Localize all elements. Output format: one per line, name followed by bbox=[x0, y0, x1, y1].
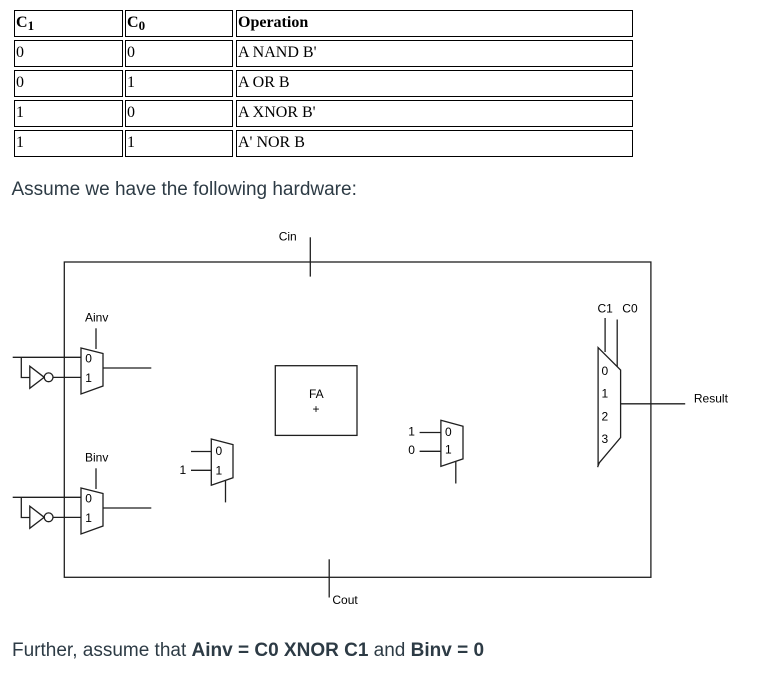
truth table row 0 header: C1 bbox=[14, 10, 123, 37]
svg-text:1: 1 bbox=[602, 387, 609, 401]
inverter U2 bubble bbox=[44, 513, 53, 522]
paragraph: assume hardware bbox=[12, 179, 357, 201]
svg-text:Binv: Binv bbox=[85, 451, 108, 465]
Ainv select wire bbox=[95, 328, 97, 349]
result mux corner tick bbox=[598, 463, 600, 467]
svg-text:3: 3 bbox=[602, 432, 609, 446]
svg-text:C0: C0 bbox=[622, 302, 638, 316]
outer hardware box bbox=[64, 262, 651, 577]
wire M1 pin 0 bbox=[191, 451, 211, 453]
truth table row 3 bbox=[14, 100, 123, 127]
svg-text:0: 0 bbox=[408, 443, 415, 457]
svg-text:0: 0 bbox=[602, 364, 609, 378]
wire inverter to Binv mux pin 1 bbox=[53, 516, 81, 518]
truth table row 1 bbox=[14, 40, 123, 67]
svg-text:+: + bbox=[313, 402, 320, 416]
paragraph: further assumption bbox=[12, 640, 484, 662]
wire branch down to inverter bbox=[21, 357, 30, 377]
svg-text:1: 1 bbox=[445, 443, 452, 457]
mux M2 (carry constant mux) bbox=[441, 420, 463, 466]
wire Ainv mux output bbox=[103, 367, 151, 369]
svg-text:Ainv: Ainv bbox=[85, 311, 108, 325]
mux Ainv bbox=[81, 348, 103, 394]
svg-text:C1: C1 bbox=[598, 302, 614, 316]
truth table row 2 bbox=[14, 70, 123, 97]
mux M1 (B constant mux) bbox=[211, 439, 233, 485]
svg-text:0: 0 bbox=[85, 492, 92, 506]
svg-text:1: 1 bbox=[216, 464, 223, 478]
svg-text:2: 2 bbox=[602, 409, 609, 423]
Cin wire bbox=[309, 237, 311, 276]
inverter U2 triangle bbox=[30, 506, 44, 528]
truth table row 0 header: C0 bbox=[125, 10, 233, 37]
svg-text:0: 0 bbox=[445, 425, 452, 439]
truth table row 4 bbox=[14, 130, 123, 157]
wire M1 pin 1 bbox=[191, 469, 211, 471]
wire B input to Binv mux pin 0 bbox=[13, 496, 81, 498]
C1 select wire bbox=[604, 318, 606, 352]
svg-text:Cout: Cout bbox=[332, 593, 358, 607]
inverter U1 triangle bbox=[30, 366, 44, 388]
inverter U1 bubble bbox=[44, 373, 53, 382]
Cout wire bbox=[328, 559, 330, 597]
wire M1 select down bbox=[225, 481, 227, 503]
wire branch down to inverter B bbox=[21, 497, 30, 517]
wire M2 pin 0 bbox=[420, 432, 441, 434]
mux M3 (result mux) bbox=[598, 348, 621, 465]
svg-text:0: 0 bbox=[85, 352, 92, 366]
wire A input to Ainv mux pin 0 bbox=[13, 356, 81, 358]
svg-text:Result: Result bbox=[694, 392, 729, 406]
Binv select wire bbox=[95, 468, 97, 489]
svg-text:1: 1 bbox=[180, 463, 187, 477]
truth table row 0 header: Operation bbox=[236, 10, 633, 37]
mux Binv bbox=[81, 488, 103, 534]
FA box bbox=[275, 366, 357, 436]
svg-text:Cin: Cin bbox=[279, 230, 297, 244]
svg-text:0: 0 bbox=[216, 444, 223, 458]
svg-text:1: 1 bbox=[85, 511, 92, 525]
wire Result output bbox=[621, 403, 686, 405]
svg-text:FA: FA bbox=[309, 387, 324, 401]
svg-text:1: 1 bbox=[408, 425, 415, 439]
C0 select wire bbox=[616, 320, 618, 367]
wire inverter to Ainv mux pin 1 bbox=[53, 376, 81, 378]
wire M2 select down bbox=[455, 462, 457, 484]
wire M2 pin 1 bbox=[420, 450, 441, 452]
wire Binv mux output bbox=[103, 507, 151, 509]
svg-text:1: 1 bbox=[85, 371, 92, 385]
